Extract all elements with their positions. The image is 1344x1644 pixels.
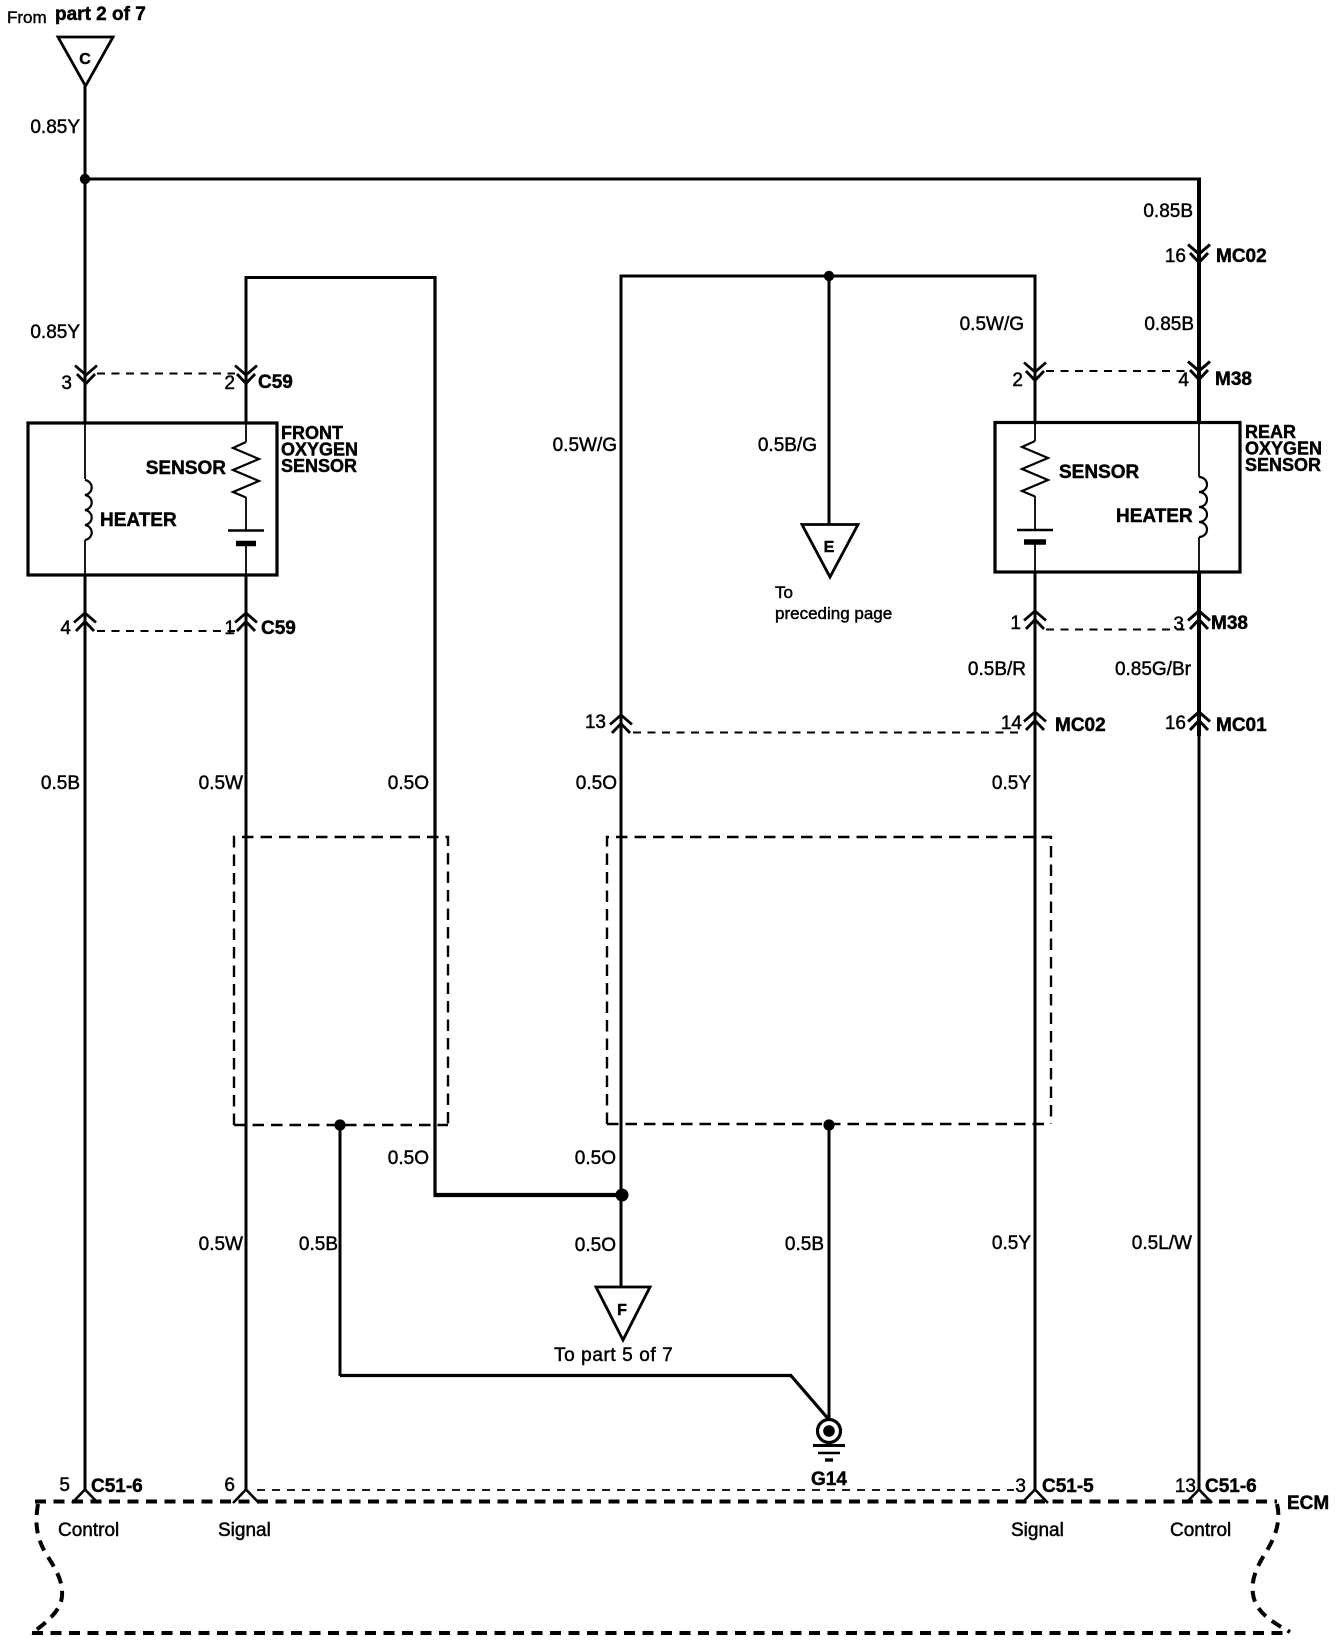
svg-text:1: 1 xyxy=(224,618,235,639)
svg-text:4: 4 xyxy=(60,618,71,639)
svg-text:MC02: MC02 xyxy=(1216,246,1267,267)
svg-text:6: 6 xyxy=(224,1475,235,1496)
svg-text:To: To xyxy=(775,583,793,602)
svg-text:0.5O: 0.5O xyxy=(576,773,617,794)
svg-text:MC01: MC01 xyxy=(1216,715,1267,736)
svg-text:0.5O: 0.5O xyxy=(575,1148,616,1169)
svg-text:C51-6: C51-6 xyxy=(1205,1476,1257,1497)
svg-text:Signal: Signal xyxy=(1011,1520,1064,1541)
svg-text:0.5Y: 0.5Y xyxy=(992,1233,1031,1254)
svg-text:4: 4 xyxy=(1178,370,1189,391)
svg-text:0.5B: 0.5B xyxy=(41,773,80,794)
svg-text:0.85G/Br: 0.85G/Br xyxy=(1115,659,1192,680)
svg-text:C: C xyxy=(79,51,91,68)
svg-text:2: 2 xyxy=(224,373,235,394)
svg-text:Control: Control xyxy=(58,1520,119,1541)
svg-text:0.85Y: 0.85Y xyxy=(30,322,80,343)
svg-text:13: 13 xyxy=(1175,1476,1196,1497)
svg-text:HEATER: HEATER xyxy=(100,510,177,531)
svg-text:0.5W/G: 0.5W/G xyxy=(553,435,617,456)
svg-text:0.5O: 0.5O xyxy=(388,773,429,794)
svg-text:16: 16 xyxy=(1165,713,1186,734)
svg-text:F: F xyxy=(617,1302,627,1319)
svg-text:16: 16 xyxy=(1165,246,1186,267)
svg-text:E: E xyxy=(824,539,835,556)
svg-text:G14: G14 xyxy=(811,1469,847,1490)
svg-text:0.5B: 0.5B xyxy=(299,1234,338,1255)
svg-text:0.85Y: 0.85Y xyxy=(30,117,80,138)
svg-text:0.5O: 0.5O xyxy=(575,1235,616,1256)
svg-text:C59: C59 xyxy=(258,372,293,393)
svg-text:3: 3 xyxy=(1015,1476,1026,1497)
svg-text:Control: Control xyxy=(1170,1520,1231,1541)
svg-text:preceding page: preceding page xyxy=(775,604,892,623)
svg-text:SENSOR: SENSOR xyxy=(1245,455,1321,475)
svg-text:Signal: Signal xyxy=(218,1520,271,1541)
svg-text:SENSOR: SENSOR xyxy=(146,458,227,479)
svg-text:0.5B/R: 0.5B/R xyxy=(968,659,1026,680)
svg-text:0.5W: 0.5W xyxy=(199,773,243,794)
svg-text:M38: M38 xyxy=(1211,613,1248,634)
svg-text:3: 3 xyxy=(1173,614,1184,635)
svg-text:MC02: MC02 xyxy=(1055,715,1106,736)
svg-text:0.5B: 0.5B xyxy=(785,1234,824,1255)
svg-text:1: 1 xyxy=(1010,613,1021,634)
svg-text:5: 5 xyxy=(59,1475,70,1496)
svg-text:SENSOR: SENSOR xyxy=(281,456,357,476)
svg-text:HEATER: HEATER xyxy=(1116,506,1193,527)
svg-text:To part 5 of 7: To part 5 of 7 xyxy=(554,1345,673,1366)
svg-text:0.85B: 0.85B xyxy=(1143,201,1193,222)
svg-text:From: From xyxy=(7,8,47,27)
svg-text:ECM: ECM xyxy=(1287,1493,1329,1514)
svg-text:C51-5: C51-5 xyxy=(1042,1476,1094,1497)
svg-text:14: 14 xyxy=(1001,713,1023,734)
svg-text:3: 3 xyxy=(61,373,72,394)
svg-text:0.85B: 0.85B xyxy=(1144,314,1194,335)
svg-text:C51-6: C51-6 xyxy=(91,1476,143,1497)
svg-text:0.5L/W: 0.5L/W xyxy=(1132,1233,1192,1254)
svg-text:0.5W/G: 0.5W/G xyxy=(960,314,1024,335)
svg-text:13: 13 xyxy=(585,712,606,733)
svg-text:SENSOR: SENSOR xyxy=(1059,462,1140,483)
svg-text:0.5B/G: 0.5B/G xyxy=(758,435,817,456)
svg-text:0.5O: 0.5O xyxy=(388,1148,429,1169)
svg-text:0.5W: 0.5W xyxy=(199,1234,243,1255)
svg-text:part 2 of 7: part 2 of 7 xyxy=(55,4,146,25)
svg-text:M38: M38 xyxy=(1215,369,1252,390)
svg-text:C59: C59 xyxy=(261,618,296,639)
svg-text:2: 2 xyxy=(1012,370,1023,391)
svg-text:0.5Y: 0.5Y xyxy=(992,773,1031,794)
